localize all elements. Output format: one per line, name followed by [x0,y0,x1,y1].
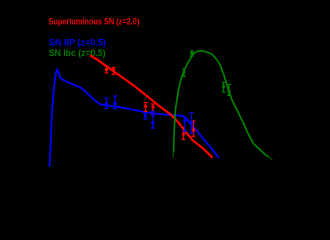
red Superluminous SN light curve [91,56,212,157]
green data point G4 with error bar [227,85,231,96]
red data point R6 with error bar [192,121,196,136]
blue data point B1 with error bar [105,98,109,108]
svg-text:SN Ibc (z=0.5): SN Ibc (z=0.5) [49,48,106,58]
green light curve faint tail end [268,157,272,160]
green data point G1 with error bar [182,69,186,77]
red data point R4 with error bar [151,104,155,114]
svg-text:Superluminous SN (z=2.0): Superluminous SN (z=2.0) [49,17,140,27]
red data point R2 with error bar [112,68,116,75]
blue data point B5 with error bar [183,117,187,131]
green data point G2 with error bar [190,51,194,56]
svg-text:SN IIP (z=0.5): SN IIP (z=0.5) [49,38,106,48]
green data point G3 with error bar [222,83,226,93]
blue data point B3 with error bar [143,113,147,119]
red data point R3 with error bar [144,103,148,112]
blue data point B2 with error bar [113,96,117,109]
blue SN IIP light curve [50,69,219,166]
red data point R1 with error bar [105,66,109,73]
green SN Ibc light curve [174,51,269,157]
red data point R5 with error bar [181,128,185,140]
blue data point B6 with error bar [190,113,194,134]
green light curve faint rise tip [172,152,174,158]
blue data point B4 square + circle with error bar [151,111,155,128]
